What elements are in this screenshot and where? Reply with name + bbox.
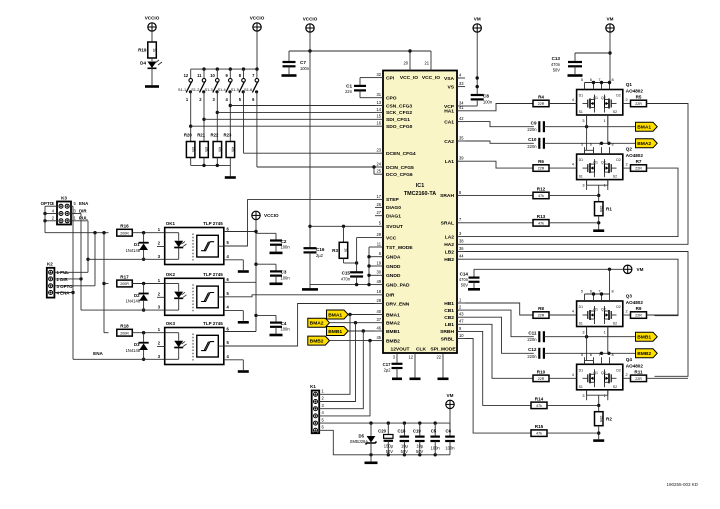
svg-text:SDI_CFG1: SDI_CFG1 [386,117,410,123]
svg-text:VCCIO: VCCIO [264,213,279,218]
svg-text:5: 5 [581,78,583,82]
svg-text:39: 39 [459,156,464,161]
svg-text:S1-5: S1-5 [231,87,239,92]
svg-text:SRBL: SRBL [441,336,454,342]
svg-text:D1: D1 [579,305,584,309]
svg-text:CLK: CLK [416,347,427,353]
svg-text:1: 1 [604,119,606,123]
svg-text:22R: 22R [635,377,642,381]
svg-text:3: 3 [582,119,584,123]
svg-text:22R: 22R [538,102,545,106]
svg-text:15: 15 [376,114,381,119]
svg-text:BMA2: BMA2 [310,321,324,327]
svg-text:DIR: DIR [386,293,395,299]
svg-text:11: 11 [377,241,382,246]
svg-text:BMA1: BMA1 [386,312,400,318]
svg-text:3: 3 [582,184,584,188]
svg-text:3 OPTO: 3 OPTO [57,284,74,289]
svg-text:R13: R13 [537,214,546,219]
svg-text:C9: C9 [531,120,537,125]
svg-text:Q2: Q2 [626,147,633,152]
svg-text:47k: 47k [538,194,544,198]
svg-text:5: 5 [581,290,583,294]
svg-text:220n: 220n [527,354,537,359]
svg-text:LB2: LB2 [445,249,455,255]
svg-text:4 ENA: 4 ENA [57,291,71,296]
svg-text:SVOUT: SVOUT [386,224,403,230]
svg-text:VCC_IO: VCC_IO [400,75,418,81]
svg-text:43: 43 [459,312,464,317]
svg-text:R22: R22 [211,133,219,138]
svg-text:C15: C15 [342,271,351,276]
svg-text:44: 44 [459,254,464,259]
svg-text:GNDD: GNDD [386,264,401,270]
svg-text:R8: R8 [538,306,544,311]
svg-text:C11: C11 [528,330,537,335]
svg-text:PUL: PUL [79,216,88,221]
svg-text:22R: 22R [538,167,545,171]
svg-text:Q1: Q1 [626,82,633,87]
svg-text:R10: R10 [537,369,546,374]
svg-text:36: 36 [459,246,464,251]
svg-text:17: 17 [376,194,381,199]
svg-text:100n: 100n [300,66,310,71]
svg-text:S2: S2 [613,110,617,114]
svg-text:VCCIO: VCCIO [250,16,265,21]
svg-text:1: 1 [604,394,606,398]
svg-text:41: 41 [459,105,464,110]
svg-text:R9: R9 [636,306,642,311]
svg-text:CB1: CB1 [444,308,454,314]
svg-text:D2: D2 [134,293,140,298]
svg-text:32: 32 [376,72,381,77]
svg-text:42: 42 [459,116,464,121]
svg-text:19: 19 [376,260,381,265]
svg-text:50V: 50V [386,449,394,454]
svg-text:Q2: Q2 [601,96,606,100]
svg-text:D2: D2 [616,305,621,309]
svg-text:4: 4 [572,163,574,167]
svg-text:22R: 22R [635,314,642,318]
svg-text:SCK_CFG2: SCK_CFG2 [386,110,412,116]
svg-text:4: 4 [572,373,574,377]
svg-text:C18: C18 [398,429,406,434]
svg-text:K3: K3 [61,195,67,200]
svg-text:OK2: OK2 [166,272,176,277]
svg-text:Q1: Q1 [593,308,598,312]
svg-text:1N4148: 1N4148 [126,348,141,353]
svg-text:8: 8 [612,290,614,294]
svg-text:LA1: LA1 [445,159,455,165]
svg-text:R15: R15 [535,424,544,429]
svg-text:R20: R20 [184,133,192,138]
svg-text:50V: 50V [416,449,424,454]
svg-text:GNDD: GNDD [386,273,401,279]
svg-text:S2: S2 [613,385,617,389]
svg-text:100n: 100n [445,445,455,450]
svg-text:R4: R4 [538,95,544,100]
svg-text:2: 2 [626,373,628,377]
svg-text:S1-4: S1-4 [218,87,227,92]
svg-text:OPTO: OPTO [41,201,54,206]
svg-text:SRAH: SRAH [440,193,454,199]
svg-text:47k: 47k [231,147,235,153]
svg-text:VCCIO: VCCIO [303,17,318,22]
svg-text:BMA2: BMA2 [386,321,400,327]
svg-text:CA2: CA2 [444,139,454,145]
svg-text:190255-003 KD: 190255-003 KD [666,482,698,487]
svg-text:GND_PAD: GND_PAD [386,282,410,288]
svg-text:R1: R1 [606,207,612,212]
svg-text:38: 38 [459,239,464,244]
svg-text:TLP 2745: TLP 2745 [203,221,223,226]
svg-text:47k: 47k [538,221,544,225]
svg-text:C16: C16 [316,247,325,252]
svg-text:OK3: OK3 [166,321,176,326]
svg-text:50V: 50V [461,283,469,288]
svg-text:47: 47 [459,319,464,324]
svg-text:K1: K1 [310,384,316,389]
svg-text:VCC: VCC [386,235,397,241]
svg-text:C14: C14 [460,271,469,276]
svg-text:BMB1: BMB1 [328,329,342,335]
svg-text:VM: VM [447,393,454,398]
svg-text:1N4148: 1N4148 [126,248,141,253]
svg-text:47k: 47k [191,147,195,153]
svg-text:47k: 47k [536,432,542,436]
svg-text:10: 10 [459,333,464,338]
svg-text:BMB1: BMB1 [637,335,651,341]
svg-text:VS: VS [447,84,454,90]
svg-text:CA1: CA1 [444,119,454,125]
svg-text:Q1: Q1 [593,371,598,375]
svg-text:Q2: Q2 [601,161,606,165]
svg-text:C19: C19 [413,429,421,434]
svg-text:2: 2 [626,310,628,314]
svg-text:C12: C12 [528,347,537,352]
svg-text:K2: K2 [47,261,53,266]
svg-text:CPO: CPO [386,96,397,102]
svg-text:D1: D1 [134,242,140,247]
svg-text:S2: S2 [613,322,617,326]
svg-text:47k: 47k [204,147,208,153]
svg-text:29: 29 [376,232,381,237]
svg-text:50V: 50V [553,68,561,73]
svg-text:R2: R2 [606,417,612,422]
svg-text:22R: 22R [635,167,642,171]
svg-text:S1-3: S1-3 [205,87,213,92]
svg-text:TLP 2745: TLP 2745 [203,272,223,277]
svg-text:R19: R19 [138,48,147,53]
svg-text:220n: 220n [527,144,537,149]
svg-text:LB1: LB1 [445,322,455,328]
svg-text:R23: R23 [224,133,232,138]
svg-text:28: 28 [376,298,381,303]
svg-text:C7: C7 [300,60,306,65]
svg-text:BMA1: BMA1 [328,312,342,318]
svg-text:22R: 22R [538,377,545,381]
svg-text:R12: R12 [537,186,546,191]
svg-text:22R: 22R [538,314,545,318]
svg-text:14: 14 [376,107,381,112]
svg-text:6: 6 [590,78,592,82]
svg-text:TMC2160-TA: TMC2160-TA [404,191,436,197]
svg-text:S1: S1 [579,322,583,326]
svg-text:49: 49 [376,279,381,284]
svg-text:13: 13 [376,100,381,105]
svg-text:47k: 47k [218,147,222,153]
svg-text:37: 37 [376,317,381,322]
svg-text:DRV_ENN: DRV_ENN [386,301,410,307]
svg-text:S1: S1 [579,385,583,389]
svg-text:47k: 47k [536,404,542,408]
svg-text:46: 46 [376,325,381,330]
svg-text:D1: D1 [579,158,584,162]
svg-text:HA1: HA1 [444,109,454,115]
svg-text:ENA: ENA [79,201,89,206]
svg-text:10µ: 10µ [416,444,424,449]
svg-text:AO4802: AO4802 [626,89,644,94]
svg-text:12VOUT: 12VOUT [390,347,409,353]
svg-text:100n: 100n [483,99,493,104]
svg-text:ENA: ENA [93,351,103,356]
svg-text:DCEN_CFG4: DCEN_CFG4 [386,151,416,157]
svg-text:TST_MODE: TST_MODE [386,245,413,251]
svg-text:S1: S1 [579,175,583,179]
svg-text:S1: S1 [579,110,583,114]
svg-text:C17: C17 [383,362,391,367]
svg-text:D1: D1 [579,368,584,372]
svg-text:VM: VM [637,267,644,272]
svg-text:12: 12 [184,73,189,78]
svg-text:VSA: VSA [444,76,455,82]
svg-text:23: 23 [376,148,381,153]
svg-text:100n: 100n [281,245,291,250]
svg-text:7: 7 [598,78,600,82]
svg-text:D2: D2 [616,94,621,98]
svg-text:R5: R5 [636,95,642,100]
svg-text:C3: C3 [281,270,287,275]
svg-text:470n: 470n [551,62,561,67]
svg-text:50V: 50V [401,449,409,454]
svg-text:10: 10 [210,73,215,78]
svg-text:22R: 22R [635,102,642,106]
svg-text:GNDA: GNDA [386,255,401,261]
svg-text:C5: C5 [431,429,437,434]
svg-text:Q4: Q4 [626,357,633,362]
svg-text:40: 40 [376,309,381,314]
svg-text:7: 7 [598,290,600,294]
svg-text:11: 11 [197,73,202,78]
svg-text:BMB2: BMB2 [637,351,651,357]
svg-text:R3: R3 [332,248,338,253]
svg-text:S2: S2 [613,175,617,179]
svg-text:27: 27 [376,210,381,215]
svg-text:10µ: 10µ [401,444,409,449]
svg-text:S1-2: S1-2 [191,87,199,92]
svg-text:SRAL: SRAL [441,221,454,227]
svg-text:22: 22 [436,355,441,360]
svg-text:D2: D2 [616,368,621,372]
svg-text:HB2: HB2 [444,257,454,263]
svg-text:VCCIO: VCCIO [145,16,160,21]
svg-text:1N4148: 1N4148 [126,299,141,304]
svg-text:18: 18 [376,289,381,294]
svg-text:Q2: Q2 [601,308,606,312]
svg-text:D5: D5 [359,434,365,439]
svg-text:S1-6: S1-6 [244,87,252,92]
svg-text:AO4802: AO4802 [626,363,644,368]
svg-text:CSN_CFG3: CSN_CFG3 [386,103,412,109]
svg-text:IC1: IC1 [416,183,424,189]
svg-text:Q1: Q1 [593,96,598,100]
svg-text:BMA1: BMA1 [637,125,651,131]
svg-text:AO4802: AO4802 [626,300,644,305]
svg-text:C20: C20 [378,429,386,434]
svg-text:3: 3 [582,331,584,335]
svg-text:CB2: CB2 [444,315,454,321]
svg-text:BMB2: BMB2 [310,338,324,344]
svg-text:CPI: CPI [386,75,395,81]
svg-text:S1-1: S1-1 [178,87,186,92]
svg-text:TLP 2745: TLP 2745 [203,321,223,326]
svg-text:D3: D3 [134,342,140,347]
svg-text:220n: 220n [527,127,537,132]
svg-text:2 DIR: 2 DIR [57,277,69,282]
svg-text:2: 2 [626,163,628,167]
svg-text:C6: C6 [446,429,452,434]
svg-text:DIAG0: DIAG0 [386,205,401,211]
svg-text:200R: 200R [120,231,129,235]
svg-text:STEP: STEP [386,197,400,203]
svg-text:Q3: Q3 [626,294,633,299]
svg-text:HA2: HA2 [444,242,454,248]
svg-text:4: 4 [572,98,574,102]
svg-text:SRBH: SRBH [440,329,454,335]
svg-text:C4: C4 [281,321,287,326]
svg-text:2k: 2k [344,249,348,253]
svg-text:DCO_CFG6: DCO_CFG6 [386,172,413,178]
svg-text:R6: R6 [538,159,544,164]
svg-text:VM: VM [474,17,481,22]
svg-text:12: 12 [408,355,413,360]
svg-text:R7: R7 [636,159,642,164]
svg-text:R18: R18 [120,324,129,329]
svg-text:470n: 470n [459,277,469,282]
svg-text:C13: C13 [552,56,561,61]
svg-text:16: 16 [376,121,381,126]
svg-text:DIR: DIR [79,208,87,213]
svg-text:22n: 22n [345,89,353,94]
svg-text:200R: 200R [120,331,129,335]
svg-text:26: 26 [376,202,381,207]
svg-text:D2: D2 [616,158,621,162]
svg-text:R17: R17 [120,275,129,280]
svg-text:4: 4 [572,310,574,314]
svg-text:100n: 100n [431,445,441,450]
svg-text:2: 2 [626,98,628,102]
svg-text:35: 35 [459,135,464,140]
svg-text:C1: C1 [346,84,352,89]
svg-text:3: 3 [582,394,584,398]
svg-text:1k: 1k [152,48,156,52]
svg-text:DCIN_CFG5: DCIN_CFG5 [386,165,414,171]
svg-text:21: 21 [424,61,429,66]
svg-text:100n: 100n [281,275,291,280]
svg-text:AO4802: AO4802 [626,153,644,158]
svg-text:R14: R14 [535,396,544,401]
svg-text:Q2: Q2 [601,371,606,375]
svg-text:31: 31 [376,92,381,97]
svg-text:C2: C2 [281,239,287,244]
svg-text:Q1: Q1 [593,161,598,165]
svg-text:15m: 15m [599,205,603,212]
svg-text:100n: 100n [281,327,291,332]
svg-text:20: 20 [403,61,408,66]
svg-text:200R: 200R [120,282,129,286]
svg-text:HB1: HB1 [444,301,454,307]
svg-text:R16: R16 [120,224,129,229]
svg-text:470n: 470n [341,276,351,281]
svg-text:SPI_MODE: SPI_MODE [430,347,456,353]
svg-text:R11: R11 [634,369,643,374]
svg-text:2µ2: 2µ2 [384,368,392,373]
svg-text:DIAG1: DIAG1 [386,214,401,220]
svg-text:VCC_IO: VCC_IO [422,75,440,81]
svg-text:D1: D1 [579,94,584,98]
svg-text:220n: 220n [527,337,537,342]
svg-text:SDO_CFG0: SDO_CFG0 [386,124,413,130]
svg-text:LA2: LA2 [445,234,455,240]
svg-text:6: 6 [590,290,592,294]
svg-text:30: 30 [376,270,381,275]
svg-text:BMA2: BMA2 [637,141,651,147]
svg-text:BMB2: BMB2 [386,338,400,344]
svg-text:R21: R21 [197,133,205,138]
svg-text:C10: C10 [528,137,537,142]
svg-text:SMBJ26A: SMBJ26A [350,439,368,444]
svg-text:25: 25 [376,169,381,174]
svg-text:VM: VM [607,17,614,22]
svg-text:33: 33 [459,81,464,86]
svg-text:24: 24 [376,161,381,166]
svg-text:2µ2: 2µ2 [316,253,324,258]
svg-text:OK1: OK1 [166,221,176,226]
svg-text:1: 1 [604,331,606,335]
svg-text:BMB1: BMB1 [386,329,400,335]
svg-text:8: 8 [612,78,614,82]
svg-text:C8: C8 [483,94,489,99]
svg-text:D4: D4 [140,61,146,66]
svg-text:45: 45 [376,335,381,340]
svg-text:15m: 15m [599,415,603,422]
svg-text:150µ: 150µ [384,444,394,449]
